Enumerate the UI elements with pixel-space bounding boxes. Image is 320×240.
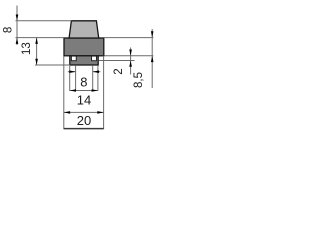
svg-text:8,5: 8,5 <box>133 72 145 88</box>
dim line 2 vertical <box>130 48 132 75</box>
arrow right 14 <box>92 89 98 92</box>
body block <box>64 38 104 56</box>
svg-text:2: 2 <box>113 68 125 74</box>
extension line foot bottom left <box>35 64 70 66</box>
arrow 8 bottom left (points right at 75.6) <box>69 70 75 73</box>
extension line right bar top <box>99 60 135 62</box>
dim line 20 bottom <box>64 111 104 113</box>
bottom closing line under 20 <box>64 128 104 130</box>
arrow left 20 <box>64 111 70 114</box>
extension line 20 left <box>63 56 65 129</box>
dim line 8 bottom right tail <box>93 71 101 73</box>
extension line 8 right <box>92 66 94 91</box>
arrow down 8.5 top <box>151 31 154 37</box>
arrow left 14 <box>70 89 76 92</box>
extension line 8 left <box>75 66 77 91</box>
svg-text:8: 8 <box>80 74 87 89</box>
arrow up tip body top <box>16 38 19 44</box>
extension line right body top <box>105 37 154 39</box>
left foot notch <box>71 56 76 61</box>
extension line top (trapezoid top level) <box>16 20 72 22</box>
arrow 8 bottom right (points left at 92.7) <box>93 70 99 73</box>
arrow down 13 <box>35 59 38 65</box>
svg-text:8: 8 <box>2 27 14 33</box>
dim line 14 bottom <box>70 90 98 92</box>
extension line 14 left <box>69 66 71 91</box>
right foot notch <box>92 56 97 61</box>
dim line 8.5 vertical <box>151 29 153 88</box>
arrow up 2 bottom <box>129 61 132 67</box>
extension line 14 right <box>97 66 99 91</box>
arrow up 13 <box>35 38 38 44</box>
dim line 8 bottom left tail <box>68 71 76 73</box>
arrow right 20 <box>97 111 103 114</box>
top trapezoid cap <box>69 21 99 38</box>
extension line 20 right <box>103 56 105 129</box>
extension line right shoulder <box>105 55 154 57</box>
arrow down 2 top <box>129 50 132 56</box>
dim line 13 vertical <box>36 38 38 65</box>
arrow down tip trapezoid top <box>16 15 19 21</box>
dim line 8 left vertical <box>16 6 18 46</box>
extension line left body top <box>16 37 65 39</box>
svg-text:20: 20 <box>77 113 91 128</box>
svg-text:14: 14 <box>77 93 91 108</box>
svg-text:13: 13 <box>21 42 33 55</box>
arrow up 8.5 bottom <box>151 56 154 62</box>
foot block <box>70 56 98 65</box>
